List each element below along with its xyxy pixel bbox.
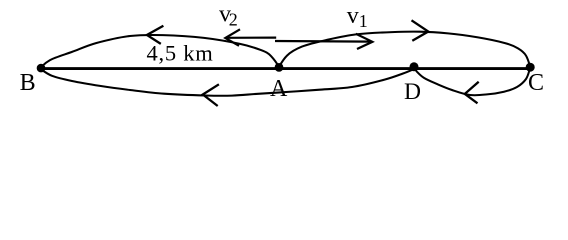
upper-left arc B to A — [41, 35, 279, 67]
svg-text:D: D — [404, 79, 421, 105]
svg-text:4,5 km: 4,5 km — [147, 40, 214, 65]
svg-text:B: B — [20, 70, 36, 96]
main line B to C — [39, 67, 531, 70]
arrowhead on upper-left arc — [147, 26, 164, 44]
arrowhead on lower small arc — [465, 82, 479, 104]
svg-text:A: A — [270, 76, 288, 102]
arrowhead on lower arc — [203, 84, 219, 106]
upper-right arc A to C — [279, 32, 530, 67]
svg-text:v1: v1 — [347, 3, 368, 31]
lower small arc C to D — [415, 68, 530, 95]
v1 arrowhead — [356, 34, 373, 49]
node C — [526, 63, 535, 72]
lower arc D to B — [41, 69, 416, 96]
svg-text:v2: v2 — [219, 2, 238, 30]
node B — [37, 64, 46, 73]
v1 vector arrow shaft — [275, 40, 371, 43]
svg-text:C: C — [528, 70, 544, 96]
node A — [275, 63, 284, 72]
arrowhead on upper-right arc — [412, 20, 429, 41]
node D — [410, 62, 419, 71]
v2 vector arrow shaft — [227, 36, 276, 38]
v2 arrowhead — [225, 29, 240, 46]
